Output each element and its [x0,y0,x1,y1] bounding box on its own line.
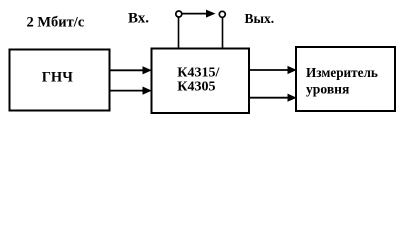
block ГНЧ (low-frequency generator) [10,50,110,111]
wire arrow 2 ГНЧ to К4315 [110,87,152,95]
terminal node Вх. (input circle) [176,11,182,17]
svg-text:ГНЧ: ГНЧ [42,70,74,86]
block К4315/К4305 (multiplexer under test) [152,49,250,114]
svg-text:Вых.: Вых. [245,11,275,26]
svg-text:2 Мбит/с: 2 Мбит/с [27,15,85,31]
wire arrow 2 К4315 to Измеритель уровня [249,94,297,102]
wire from Вх. terminal down to block К4315 [178,17,180,48]
wire from Вых. terminal down to block К4315 [222,17,224,48]
wire arrow 1 К4315 to Измеритель уровня [249,66,297,74]
svg-text:Измеритель: Измеритель [306,65,378,80]
svg-text:К4305: К4305 [177,79,215,94]
wire arrow 1 ГНЧ to К4315 [110,66,152,74]
svg-text:Вх.: Вх. [128,11,149,27]
block Измеритель уровня (level meter) [296,47,395,111]
svg-text:уровня: уровня [306,82,349,97]
terminal node Вых. (output circle) [219,11,225,17]
svg-text:К4315/: К4315/ [177,66,220,81]
jumper arrow from Вх. to Вых. [183,10,216,18]
